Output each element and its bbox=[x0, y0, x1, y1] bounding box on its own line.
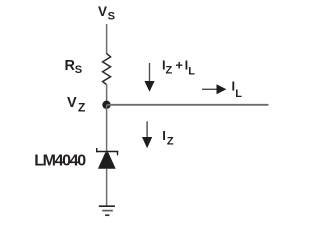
wire diode anode to ground bbox=[106, 169, 108, 207]
ground bbox=[99, 206, 115, 215]
svg-text:Z: Z bbox=[167, 135, 174, 147]
svg-text:V: V bbox=[98, 4, 107, 19]
wire resistor to node VZ bbox=[106, 84, 108, 105]
wire VS to resistor bbox=[106, 24, 108, 54]
node VZ label bbox=[67, 95, 85, 115]
svg-text:LM4040: LM4040 bbox=[34, 153, 86, 170]
svg-text:I: I bbox=[162, 128, 166, 143]
svg-text:S: S bbox=[108, 10, 115, 22]
anode triangle bbox=[98, 152, 116, 169]
svg-text:Z: Z bbox=[78, 101, 85, 115]
wire node VZ to diode cathode bbox=[106, 105, 108, 152]
cathode left tick bbox=[96, 148, 98, 152]
diode LM4040 label bbox=[34, 153, 86, 170]
cathode bar bbox=[96, 151, 118, 153]
node VZ junction dot bbox=[102, 101, 110, 109]
resistor RS value label bbox=[65, 58, 83, 76]
arrow IZ+IL current down bbox=[144, 63, 154, 92]
resistor RS bbox=[103, 54, 111, 85]
svg-text:L: L bbox=[188, 65, 195, 77]
cathode right tick bbox=[117, 151, 119, 155]
wire output rail bbox=[107, 104, 269, 106]
zener diode LM4040 bbox=[96, 148, 118, 169]
svg-text:V: V bbox=[67, 95, 77, 111]
arrow IL current right bbox=[202, 84, 226, 94]
svg-text:S: S bbox=[75, 64, 82, 76]
node VS label bbox=[98, 4, 115, 23]
svg-text:L: L bbox=[235, 88, 242, 100]
label IL bbox=[232, 79, 243, 100]
svg-text:+: + bbox=[175, 57, 183, 72]
arrow IZ current down bbox=[142, 121, 152, 148]
label IZ + IL bbox=[162, 57, 195, 77]
svg-text:Z: Z bbox=[166, 65, 173, 77]
label IZ bbox=[162, 128, 174, 147]
